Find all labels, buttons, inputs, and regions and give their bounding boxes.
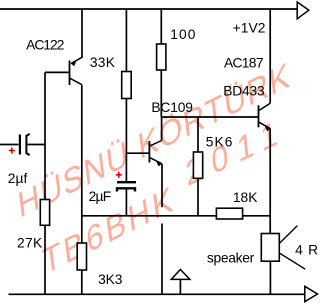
svg-text:3K3: 3K3 bbox=[98, 272, 123, 287]
resistor 3K3 bbox=[77, 243, 86, 270]
speaker cone diagonal lower bbox=[280, 253, 305, 269]
wire ground drop bbox=[161, 224, 163, 295]
transistor Q1 AC122 bbox=[70, 57, 83, 85]
wire 3K3 bottom bbox=[81, 270, 83, 294]
resistor 100 bbox=[157, 44, 166, 70]
svg-text:AC187: AC187 bbox=[224, 56, 264, 71]
speaker cone diagonal upper bbox=[280, 226, 298, 244]
resistor 18K bbox=[216, 208, 242, 219]
wire AC187 emitter vertical bbox=[269, 129, 271, 234]
wire AC187 collector riser bbox=[269, 9, 271, 103]
svg-text:2µf: 2µf bbox=[8, 171, 28, 186]
wire AC122 base bbox=[45, 71, 69, 73]
ground triangle symbol bbox=[171, 270, 190, 280]
svg-text:BC109: BC109 bbox=[151, 100, 193, 115]
svg-text:5K6: 5K6 bbox=[206, 135, 233, 150]
svg-text:speaker: speaker bbox=[207, 251, 255, 266]
svg-text:100: 100 bbox=[170, 27, 196, 42]
transistor Q2 BC109 bbox=[149, 141, 161, 167]
svg-text:2µF: 2µF bbox=[89, 189, 112, 204]
wire input left bbox=[0, 144, 19, 146]
capacitor C2 2uF bbox=[116, 172, 136, 192]
wire node line to AC187 base bbox=[161, 116, 258, 118]
wire ground symbol stub bbox=[179, 279, 181, 294]
terminal arrow bottom right bbox=[305, 286, 318, 301]
resistor 33K bbox=[122, 72, 132, 99]
wire speaker bottom bbox=[269, 261, 271, 294]
svg-text:27K: 27K bbox=[17, 236, 43, 251]
wire 33K bottom to 2uF bbox=[125, 99, 127, 182]
wire 5K6 top bbox=[197, 117, 199, 152]
svg-text:AC122: AC122 bbox=[26, 38, 64, 53]
svg-text:BD433: BD433 bbox=[223, 84, 265, 99]
wire 2uF bottom bbox=[125, 190, 127, 216]
svg-text:18K: 18K bbox=[233, 190, 258, 205]
speaker body bbox=[261, 234, 279, 262]
svg-text:33K: 33K bbox=[90, 55, 116, 70]
wire 33K top bbox=[125, 9, 127, 72]
wire 27K bottom bbox=[44, 225, 46, 294]
wire cap C1 to node bbox=[28, 144, 46, 146]
capacitor C1 2uf input bbox=[9, 134, 30, 155]
wire AC122 collector vertical bbox=[81, 85, 83, 243]
wire top supply rail bbox=[0, 8, 297, 10]
wire 18K to output bbox=[243, 215, 271, 217]
wire BC109 emitter vertical bbox=[161, 164, 163, 208]
wire mid horizontal node bbox=[82, 215, 217, 217]
wire 100 top bbox=[160, 9, 162, 44]
wire bottom rail bbox=[9, 293, 305, 295]
wire base branch vertical bbox=[44, 72, 46, 199]
resistor 27K bbox=[40, 200, 49, 226]
wire 5K6 bottom bbox=[197, 178, 199, 216]
wire AC122 emitter drop from rail bbox=[81, 9, 83, 58]
wire BC109 collector vertical bbox=[161, 117, 163, 141]
svg-text:+1V2: +1V2 bbox=[233, 21, 266, 36]
wire 100 bottom bbox=[160, 70, 162, 117]
svg-text:4 R: 4 R bbox=[295, 243, 318, 258]
wire BC109 base bbox=[126, 152, 148, 154]
transistor Q3 AC187/BD433 bbox=[259, 103, 271, 131]
terminal arrow top right bbox=[297, 2, 309, 19]
resistor 5K6 bbox=[193, 152, 202, 178]
